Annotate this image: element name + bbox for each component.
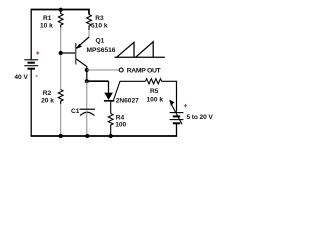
wire R5 to battery xyxy=(162,81,177,112)
svg-text:10 k: 10 k xyxy=(40,23,53,30)
svg-text:100 k: 100 k xyxy=(147,97,164,104)
svg-text:100: 100 xyxy=(115,121,126,128)
node R4 bottom rail dot xyxy=(109,134,113,138)
terminal circle RAMP OUT xyxy=(119,68,123,72)
svg-text:MPS6516: MPS6516 xyxy=(87,47,116,54)
sawtooth waveform icon xyxy=(115,42,165,58)
label Q1 MPS6516 xyxy=(87,38,116,54)
battery B2 5-20V xyxy=(170,113,184,124)
label R5 100k xyxy=(147,88,164,103)
wire gate to R5 xyxy=(120,80,146,82)
label minus xyxy=(36,75,38,77)
resistor R2 xyxy=(58,55,63,136)
variable arrow xyxy=(169,100,182,125)
resistor R4 xyxy=(108,102,113,136)
PUT 2N6027 xyxy=(104,81,120,101)
wire base xyxy=(61,52,76,54)
resistor R3 xyxy=(87,15,92,38)
node cap/anode dot xyxy=(85,79,89,83)
svg-text:40 V: 40 V xyxy=(14,74,28,81)
label + xyxy=(36,51,39,54)
wire ramp out xyxy=(87,69,119,71)
svg-text:Q1: Q1 xyxy=(96,38,105,45)
node R2 bottom rail dot xyxy=(59,134,63,138)
svg-text:RAMP OUT: RAMP OUT xyxy=(127,67,162,74)
label + xyxy=(184,104,187,107)
svg-text:R3: R3 xyxy=(95,15,104,22)
transistor Q1 xyxy=(76,37,89,67)
label R4 100 xyxy=(115,114,126,128)
resistor R5 xyxy=(146,79,162,84)
capacitor C1 xyxy=(80,81,96,135)
node C1 bottom rail dot xyxy=(85,134,89,138)
node collector/ramp dot xyxy=(85,68,89,72)
svg-text:2N6027: 2N6027 xyxy=(116,97,139,104)
wire top rail xyxy=(30,10,32,60)
wire battery to bottom rail xyxy=(176,124,178,136)
node junction dot at R1 top xyxy=(59,8,63,12)
svg-text:510 k: 510 k xyxy=(91,23,108,30)
label R2 20k xyxy=(41,90,54,105)
wire anode xyxy=(87,80,109,82)
svg-text:20 k: 20 k xyxy=(41,98,54,105)
resistor R1 xyxy=(58,10,63,52)
label R1 10k xyxy=(40,15,53,29)
svg-text:R2: R2 xyxy=(43,90,52,97)
wire collector drop xyxy=(86,66,88,81)
svg-text:R1: R1 xyxy=(43,15,52,22)
label R3 510k xyxy=(91,15,108,29)
node base junction dot xyxy=(59,51,63,55)
svg-text:5 to 20 V: 5 to 20 V xyxy=(187,114,214,121)
svg-text:C1: C1 xyxy=(71,108,80,115)
battery B1 40V xyxy=(24,60,38,69)
svg-text:R5: R5 xyxy=(150,88,159,95)
